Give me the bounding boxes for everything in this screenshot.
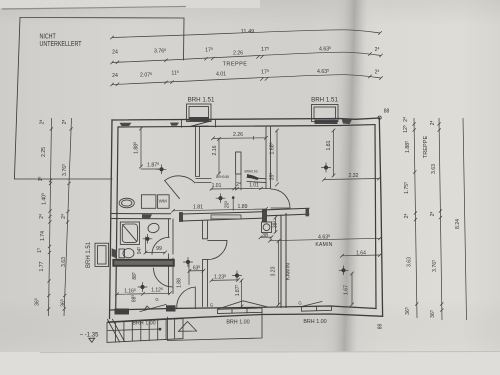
bathroom right wall V3 — [169, 219, 174, 294]
svg-text:99: 99 — [156, 246, 162, 252]
svg-text:TREPPE: TREPPE — [223, 62, 248, 68]
svg-text:~ -1.35: ~ -1.35 — [80, 333, 100, 339]
window BRH 1.51 (left) — [187, 104, 212, 122]
chain 11.49 — [112, 30, 380, 38]
svg-text:88: 88 — [384, 109, 390, 115]
WC — [119, 249, 125, 258]
chain C — [112, 75, 381, 85]
svg-text:3.23: 3.23 — [271, 266, 277, 276]
svg-text:WM: WM — [159, 198, 167, 203]
chimney shaft room2 — [236, 152, 241, 174]
kamin room dims — [270, 238, 380, 240]
bottom-middle room dims — [212, 279, 239, 282]
storeroom door arc — [154, 268, 173, 287]
top wall inner — [119, 125, 376, 127]
dimension chain right col3 — [463, 118, 467, 320]
dark niche blob room2 — [247, 174, 259, 180]
bottom lighter strip below paper edge — [0, 352, 500, 375]
svg-text:11.49: 11.49 — [241, 29, 255, 35]
bath sink — [147, 222, 160, 234]
svg-text:G: G — [210, 302, 213, 307]
svg-text:BRH 1.51: BRH 1.51 — [311, 97, 338, 104]
svg-text:BRH 1.51: BRH 1.51 — [86, 241, 92, 268]
svg-text:2.25: 2.25 — [41, 147, 47, 157]
wall V2 room2|room3 — [266, 127, 271, 189]
window BRH 1.51 (left wall) — [95, 243, 109, 266]
door bottom-middle room — [208, 240, 227, 259]
door arc room3 — [271, 189, 290, 208]
svg-text:UNTERKELLERT: UNTERKELLERT — [40, 39, 82, 48]
bottom wall — [108, 314, 383, 322]
window BRH 1.51 (right) — [312, 105, 339, 122]
svg-text:38: 38 — [262, 233, 268, 239]
kitchen wall — [112, 214, 171, 219]
svg-text:1.81: 1.81 — [326, 140, 332, 150]
svg-text:BRH0.63: BRH0.63 — [245, 169, 258, 173]
bath dims — [145, 237, 147, 253]
svg-text:88: 88 — [378, 324, 384, 330]
svg-text:1.81: 1.81 — [193, 204, 203, 210]
svg-text:1.01: 1.01 — [212, 183, 222, 189]
survey marker room1 — [157, 165, 166, 174]
svg-text:BRH0.88: BRH0.88 — [216, 175, 229, 179]
wall V4 — [203, 221, 208, 307]
svg-text:3.63: 3.63 — [431, 164, 437, 174]
boiler box — [262, 222, 272, 233]
hall exit door arc — [177, 287, 196, 309]
svg-text:G: G — [298, 300, 301, 305]
dimension chain left col1 — [49, 118, 52, 316]
chain B — [112, 52, 381, 62]
nicht-unterkellert boundary — [14, 18, 184, 180]
hall lower dims — [189, 270, 203, 272]
svg-text:1.88: 1.88 — [177, 278, 183, 288]
dimension chain right col1 — [414, 118, 417, 318]
exterior stairs — [107, 319, 183, 343]
storeroom dims — [117, 293, 170, 294]
vent triangle — [179, 322, 197, 332]
svg-text:BRH 1.00: BRH 1.00 — [226, 319, 249, 325]
hall top wall stub — [196, 178, 266, 183]
svg-text:2.32: 2.32 — [348, 173, 358, 179]
svg-text:3.63: 3.63 — [407, 257, 413, 267]
svg-text:KAMIN: KAMIN — [286, 263, 292, 280]
corner dot top-right — [378, 116, 381, 119]
washing machine box — [158, 195, 170, 209]
svg-text:2.26: 2.26 — [233, 132, 243, 138]
hall bottom wall — [180, 213, 183, 222]
svg-text:1.67: 1.67 — [344, 285, 350, 295]
kitchen box — [141, 195, 156, 209]
bath door arc — [152, 237, 169, 254]
svg-text:1.77: 1.77 — [39, 261, 45, 271]
room3 dims — [333, 130, 335, 176]
svg-text:4.01: 4.01 — [216, 72, 226, 78]
wall V1 room1|room2 — [196, 127, 200, 177]
kitchen sink oval — [119, 198, 134, 208]
bottom window (middle room) — [218, 308, 263, 314]
right wall — [379, 118, 382, 316]
lighter strip above top paper edge — [0, 0, 260, 8]
svg-text:2.26: 2.26 — [233, 51, 243, 57]
top-left paper edge line — [2, 7, 186, 10]
top wall outer — [112, 118, 379, 120]
bath bottom wall (thick) — [113, 260, 174, 266]
svg-text:TREPPE: TREPPE — [423, 136, 429, 159]
kamin wall V5 — [281, 214, 286, 308]
level mark -1.35 — [89, 338, 95, 342]
svg-text:BRH 1.51: BRH 1.51 — [188, 97, 215, 104]
svg-text:BRH 1.00: BRH 1.00 — [132, 320, 155, 326]
door arc room1 — [165, 176, 195, 183]
dimension chain left col2 — [64, 118, 72, 316]
hall dims — [173, 209, 266, 211]
dark wall bars at exit — [115, 309, 130, 315]
svg-text:3.63: 3.63 — [61, 257, 67, 267]
svg-text:2.16: 2.16 — [212, 145, 218, 155]
svg-text:1.64: 1.64 — [356, 250, 366, 256]
room1 dims — [140, 128, 142, 167]
lightwell outline — [168, 312, 263, 341]
svg-text:BRH 1.00: BRH 1.00 — [303, 319, 326, 325]
paper fold shadow — [317, 0, 385, 375]
exit threshold diagonal — [140, 305, 166, 312]
kamin room top wall — [267, 208, 310, 216]
svg-text:8.24: 8.24 — [455, 219, 461, 229]
bottom window (kamin room) — [302, 306, 332, 311]
svg-text:1.89: 1.89 — [237, 204, 247, 210]
svg-text:1.74: 1.74 — [40, 231, 46, 241]
svg-text:24: 24 — [112, 73, 118, 79]
room2 dims — [213, 137, 266, 140]
window sill marks on top wall — [120, 123, 132, 126]
dimension chain right col2 — [439, 118, 442, 320]
boiler dims — [261, 236, 272, 238]
bathtub — [120, 222, 139, 244]
svg-text:1.01: 1.01 — [249, 182, 259, 188]
svg-text:G: G — [155, 297, 158, 302]
svg-text:24: 24 — [112, 50, 118, 56]
svg-text:KAMIN: KAMIN — [315, 242, 332, 248]
left wall — [110, 120, 113, 319]
